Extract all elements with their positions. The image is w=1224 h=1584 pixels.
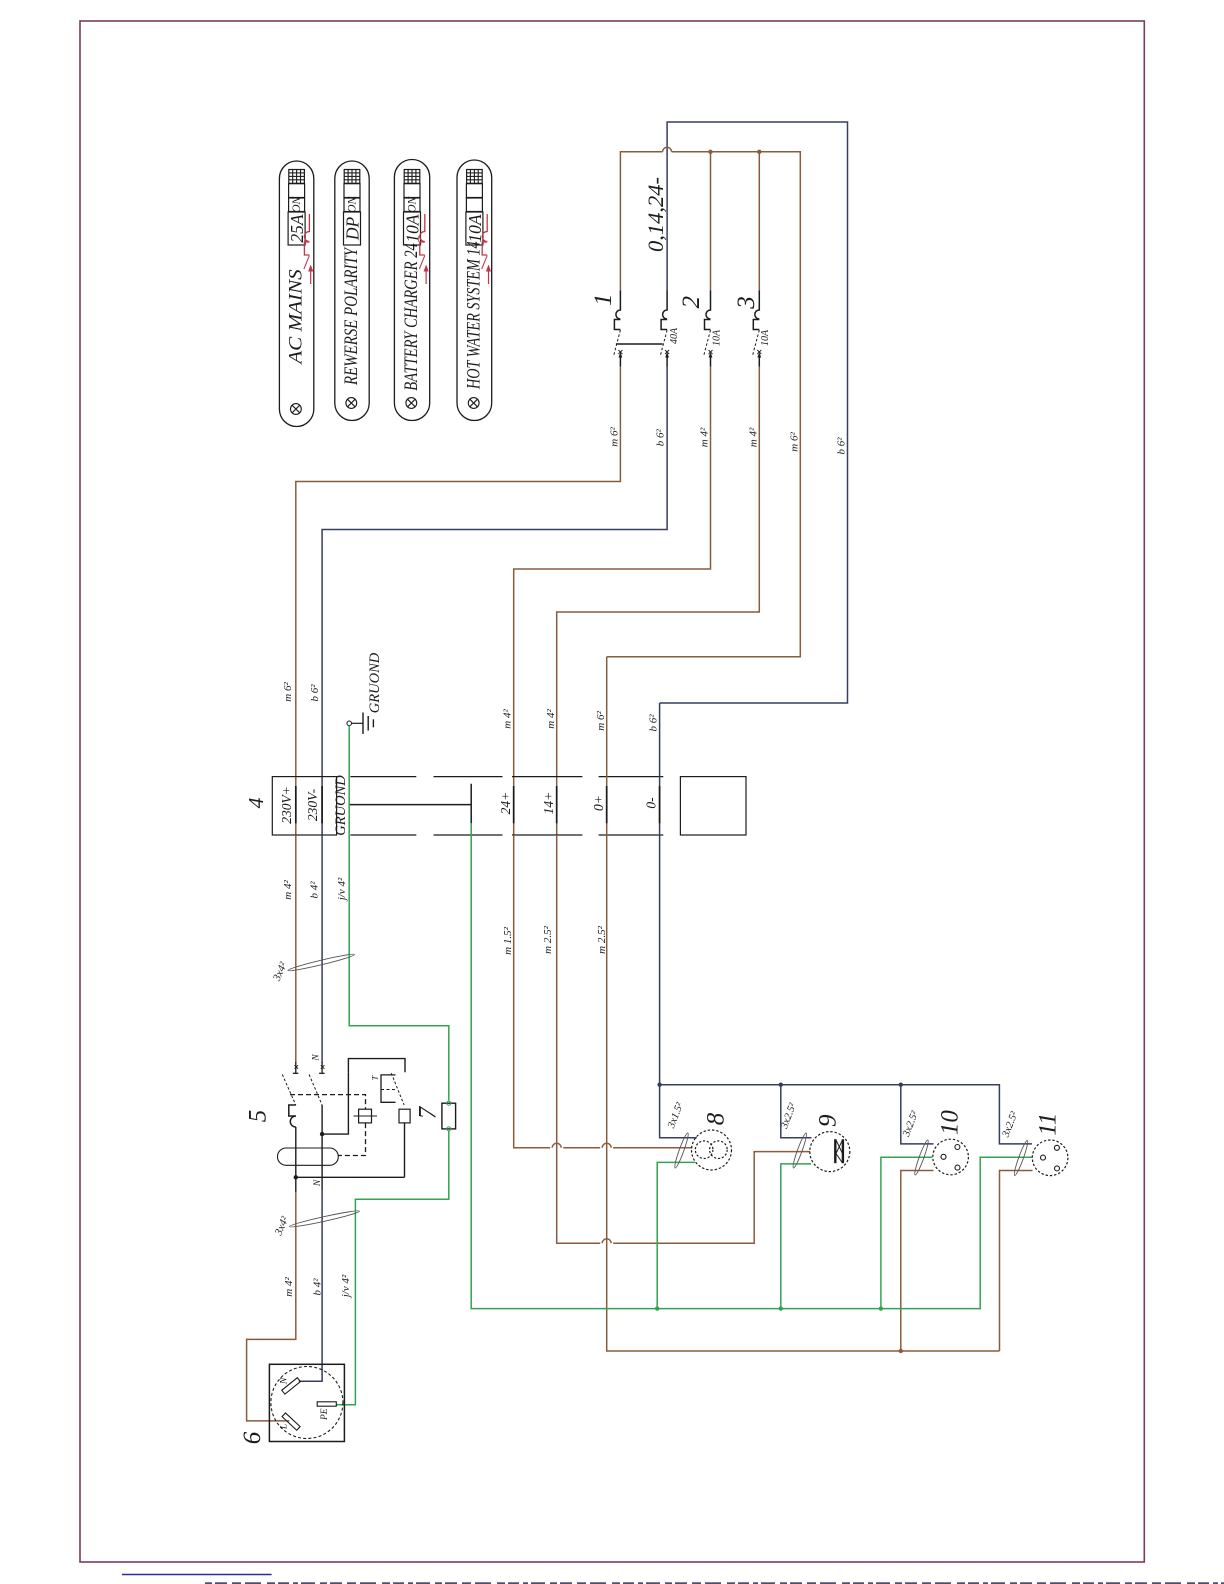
terminal strip right end box <box>680 777 746 835</box>
wire m6/0+ to lamps 10,11 bus <box>607 657 1000 1351</box>
svg-text:230V+: 230V+ <box>279 786 294 824</box>
cable marker 3x2.5 socket11 <box>1012 1140 1029 1177</box>
footer link underline <box>122 1574 272 1576</box>
wire j/v4 strip to box7 <box>349 726 449 1101</box>
wire b4 strip to RCD5 <box>321 835 323 1063</box>
shore inlet 6 <box>269 1364 344 1441</box>
wire brown lamp10 drop <box>901 1171 934 1352</box>
socket 10 <box>933 1139 969 1175</box>
svg-text:j/v 4²: j/v 4² <box>340 1274 352 1299</box>
svg-text:6: 6 <box>239 1431 266 1444</box>
svg-text:24+: 24+ <box>498 792 513 815</box>
wire green earth bus <box>471 823 1032 1308</box>
svg-text:ON: ON <box>291 195 303 212</box>
breaker 1 pole B <box>660 291 669 367</box>
wire green lamp10 <box>881 1157 932 1308</box>
svg-text:T: T <box>370 1074 380 1080</box>
hop m1.5 over m2.5 <box>552 1143 561 1148</box>
junction navy bus at lamp8 <box>657 1083 661 1087</box>
svg-text:m 4²: m 4² <box>502 709 514 729</box>
svg-text:b 6²: b 6² <box>654 428 666 446</box>
junction breaker3 feed <box>757 150 761 154</box>
svg-text:9: 9 <box>815 1114 842 1127</box>
svg-text:b 6²: b 6² <box>836 437 848 455</box>
wire navy drop lamp9 <box>781 1085 812 1138</box>
ground symbol <box>347 713 373 735</box>
junction navy bus at lamp9 <box>779 1083 783 1087</box>
hop m2.5 over m2.5 <box>602 1239 611 1244</box>
svg-text:m 4²: m 4² <box>545 709 557 729</box>
junction brown bus lamp10 <box>899 1349 903 1353</box>
wire m1.5 24+ to lamp8 <box>514 835 693 1148</box>
svg-text:m 6²: m 6² <box>789 432 801 452</box>
breaker panel label BATTERY CHARGER 24 <box>394 160 429 421</box>
wire b6 top bus (navy) <box>660 122 848 703</box>
wire m6 breaker1 to 230V+ <box>296 367 621 836</box>
svg-text:ON: ON <box>347 195 359 212</box>
svg-text:3x2.5²: 3x2.5² <box>901 1109 921 1139</box>
breaker 1 tie bar <box>616 343 663 345</box>
terminal bar 0+ <box>606 786 608 823</box>
socket 11 <box>1032 1140 1068 1176</box>
svg-text:230V-: 230V- <box>305 788 320 821</box>
svg-text:PE: PE <box>320 1408 330 1421</box>
junction green lamp10 <box>879 1306 883 1310</box>
wire green lamp9 <box>781 1164 811 1309</box>
wire brown lamp11 drop <box>1000 1171 1033 1352</box>
svg-text:m 6²: m 6² <box>609 427 621 447</box>
wire navy lamp top bus <box>660 1085 1032 1144</box>
wire m4 RCD to inlet L <box>247 1192 296 1421</box>
svg-text:0-: 0- <box>643 797 658 809</box>
svg-text:3: 3 <box>733 296 760 310</box>
svg-text:b 6²: b 6² <box>309 684 321 702</box>
wire b6/0- to lamp bus <box>660 703 697 1138</box>
lamp 8 <box>692 1130 732 1170</box>
cable marker 3x2.5 lamp9 <box>791 1132 808 1169</box>
svg-text:3x2.5²: 3x2.5² <box>1000 1110 1020 1140</box>
wire m4 breaker2 to 24+ <box>514 367 711 836</box>
svg-text:m 4²: m 4² <box>748 427 760 447</box>
svg-text:8: 8 <box>703 1112 730 1125</box>
wire green lamp8 <box>657 1162 695 1308</box>
cable marker 3x2.5 socket10 <box>913 1139 930 1176</box>
wire breaker3 drop <box>758 152 760 291</box>
svg-text:HOT WATER SYSTEM 14: HOT WATER SYSTEM 14 <box>463 241 484 390</box>
svg-text:0,14,24-: 0,14,24- <box>643 177 668 252</box>
svg-text:4: 4 <box>244 797 268 808</box>
svg-text:BATTERY CHARGER 24: BATTERY CHARGER 24 <box>401 243 422 391</box>
footer cut-off text <box>205 1582 1224 1584</box>
svg-text:REWERSE POLARITY: REWERSE POLARITY <box>341 246 362 386</box>
junction green lamp8 <box>655 1306 659 1310</box>
terminal bar ground link <box>349 784 471 824</box>
breaker panel label HOT WATER SYSTEM 14 <box>457 160 492 421</box>
svg-text:7: 7 <box>415 1105 442 1119</box>
wire m4 strip to RCD5 <box>295 835 297 1063</box>
wire b4 RCD to inlet N <box>299 1190 322 1381</box>
terminal bar 24+ <box>513 786 515 823</box>
breaker 1 pole A <box>613 291 622 367</box>
cable marker 3x4 upper <box>287 952 355 972</box>
hop m1.5 over m2.5 <box>602 1143 611 1148</box>
svg-text:m 6²: m 6² <box>595 711 607 731</box>
cable marker 3x1.5 lamp8 <box>673 1132 690 1169</box>
wire j/v4 box7 to inlet PE <box>336 1131 449 1405</box>
box 7 <box>442 1101 456 1131</box>
wire hop m6 over b6 <box>663 147 672 152</box>
RCD 5 <box>278 1059 411 1192</box>
svg-text:N: N <box>313 1179 323 1187</box>
junction breaker2 feed <box>708 150 712 154</box>
svg-text:N: N <box>312 1054 322 1062</box>
svg-text:j/v 4²: j/v 4² <box>336 877 348 902</box>
terminal strip dashes top <box>350 776 416 778</box>
wire breaker2 drop <box>710 152 712 291</box>
wire m6 top bus (brown) <box>607 152 801 657</box>
wire m4 breaker3 to 14+ <box>557 367 760 836</box>
svg-text:AC MAINS: AC MAINS <box>286 269 307 366</box>
svg-text:2: 2 <box>678 296 705 309</box>
svg-text:14+: 14+ <box>541 792 556 815</box>
svg-text:b 4²: b 4² <box>309 881 321 899</box>
breaker 2 <box>704 291 713 367</box>
breaker 3 <box>752 291 761 367</box>
svg-text:b 6²: b 6² <box>648 714 660 732</box>
svg-text:10A: 10A <box>711 329 722 346</box>
terminal bar 14+ <box>556 786 558 823</box>
wire navy drop lamp10 <box>901 1085 934 1144</box>
terminal bar 230V- <box>321 786 323 823</box>
svg-text:m 2.5²: m 2.5² <box>596 925 608 953</box>
terminal strip 4 left box <box>272 777 336 835</box>
svg-text:5: 5 <box>245 1110 272 1123</box>
svg-text:N: N <box>280 1377 290 1385</box>
lamp 9 <box>810 1132 850 1172</box>
svg-text:GRUOND: GRUOND <box>367 652 383 713</box>
svg-text:GRUOND: GRUOND <box>333 775 349 836</box>
svg-text:1: 1 <box>590 293 617 306</box>
svg-text:b 4²: b 4² <box>312 1278 324 1296</box>
svg-text:3x2.5²: 3x2.5² <box>779 1101 799 1131</box>
svg-text:3x4²: 3x4² <box>272 1214 291 1238</box>
svg-text:m 4²: m 4² <box>283 1277 295 1297</box>
svg-text:40A: 40A <box>669 327 680 344</box>
breaker panel label REWERSE POLARITY <box>335 161 369 421</box>
svg-text:m 6²: m 6² <box>282 682 294 702</box>
terminal bar 230V+ <box>295 786 297 823</box>
svg-text:m 4²: m 4² <box>699 427 711 447</box>
svg-text:3x4²: 3x4² <box>271 960 290 984</box>
svg-text:m 4²: m 4² <box>282 880 294 900</box>
svg-text:3x1.5²: 3x1.5² <box>666 1101 686 1131</box>
terminal strip dashes bottom <box>350 834 416 836</box>
cable marker 3x4 lower <box>289 1209 360 1229</box>
wire m2.5 14+ to lamp9 <box>557 835 811 1243</box>
svg-text:m 2.5²: m 2.5² <box>542 925 554 953</box>
terminal bar 0- <box>659 786 661 823</box>
svg-text:11: 11 <box>1035 1113 1062 1136</box>
svg-text:10: 10 <box>937 1110 964 1136</box>
breaker panel label AC MAINS <box>279 161 313 427</box>
svg-text:m 1.5²: m 1.5² <box>502 926 514 954</box>
svg-text:ON: ON <box>407 195 419 212</box>
svg-text:L: L <box>280 1424 290 1430</box>
junction navy bus at lamp10 <box>899 1083 903 1087</box>
junction green lamp9 <box>779 1306 783 1310</box>
svg-text:0+: 0+ <box>591 795 606 811</box>
svg-text:10A: 10A <box>760 329 771 346</box>
wire b6 breaker1 to 230V- <box>322 367 667 836</box>
svg-text:DP: DP <box>343 217 363 242</box>
